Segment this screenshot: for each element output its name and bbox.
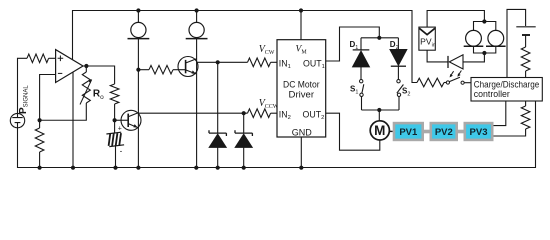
switch S2 [397, 80, 400, 83]
switch S3 (light activated) [446, 81, 449, 84]
svg-text:GND: GND [292, 127, 313, 137]
svg-text:+: + [118, 126, 122, 133]
wire: LED cathode back to PVin bottom [427, 50, 448, 62]
junction: bulb pair bottom [482, 51, 486, 55]
node VCCW: wire from Q1 collector to IN2 [138, 112, 247, 114]
junction: Z2 at ground rail [242, 166, 246, 170]
solar panel PV1 [393, 122, 424, 141]
controller U3 [471, 78, 542, 102]
op-amp supply / driver VM: junction on top rail [299, 8, 303, 12]
bulb LP2 [488, 30, 504, 46]
resistor R4 (IN1 series) [248, 58, 271, 67]
wire: VM pin [300, 11, 302, 40]
junction: lamp L2 tap on top rail [195, 8, 199, 12]
junction: Q1 emitter at ground rail [136, 166, 140, 170]
svg-text:M: M [374, 123, 385, 138]
resistor R3 (Q2 base) [138, 69, 149, 71]
wire: VCW branch down to zener Z1 [217, 62, 219, 133]
bulb pair bottom bracket [474, 46, 496, 53]
resistor R6 (controller input) [417, 78, 444, 87]
junction: Q2 emitter at ground rail [194, 166, 198, 170]
IC U2 DC Motor Driver [277, 40, 326, 137]
wire: controller top to battery B2 [507, 9, 526, 77]
svg-text:PV2: PV2 [435, 127, 453, 138]
junction: OUT1 at diode bus [377, 36, 381, 40]
resistor R1 (feedback divider to ground) [39, 120, 41, 128]
svg-text:DC Motor: DC Motor [283, 79, 320, 89]
wire: PV3 lower terminal to Rc2 [494, 129, 526, 136]
mech link PV1-PV2 [424, 130, 430, 134]
resistor R2 (output to Q1 base) [110, 84, 119, 104]
svg-text:-: - [120, 147, 123, 156]
lamp L1 [137, 11, 139, 23]
op-amp U1 [56, 50, 83, 83]
wire: top supply rail from op-amp V+ to PVin branch [73, 11, 418, 83]
lamp L2 [196, 11, 198, 23]
wire: L2 through Q2 to ground rail [196, 39, 198, 168]
wire: diode top bus [361, 37, 398, 39]
bulb pair top bracket [474, 22, 496, 31]
junction: feedback node at - input leg [38, 118, 42, 122]
junction: R1 at ground rail [38, 166, 42, 170]
solar cell PVin [419, 27, 435, 50]
junction: op-amp V- at ground rail [71, 166, 75, 170]
potentiometer Ro [85, 66, 87, 72]
wire: bulb bottom to LED anode [463, 53, 484, 62]
battery B1 (bias cell) [114, 120, 116, 133]
wire: op-amp output [83, 66, 115, 84]
switch S1 [360, 80, 363, 83]
resistor R5 (IN2 series) [248, 109, 271, 118]
transistor Q2 [178, 57, 198, 77]
battery B2 [516, 26, 535, 28]
wire: op-amp - input / feedback node [40, 75, 87, 121]
svg-text:PV1: PV1 [399, 127, 418, 138]
mech link PV2-PV3 [458, 130, 464, 134]
zener Z2 [243, 113, 245, 133]
transistor Q1 [121, 110, 141, 130]
wire: op-amp V- pin to ground rail [72, 72, 74, 168]
junction: op-amp output node [84, 64, 88, 68]
diode D1 [360, 38, 362, 50]
junction: B1 at ground rail [113, 166, 117, 170]
junction: bulb pair top [482, 19, 486, 23]
wire: source top to input resistor [18, 58, 28, 113]
mech link motor to PV1 [389, 130, 392, 132]
wire: PV3 upper terminal to controller [494, 101, 506, 126]
wire: switch bottom bus to motor [362, 109, 400, 111]
wire: resistor to op-amp + input [49, 57, 56, 59]
diode D2 [397, 38, 399, 50]
wire: OUT1 loop over to diode pair [326, 27, 380, 61]
source P_SIGNAL [10, 113, 24, 127]
wire: GND pin to ground rail [300, 137, 302, 168]
junction: VCW zener branch [216, 60, 220, 64]
svg-text:Driver: Driver [289, 89, 315, 99]
light arrows from LED to switch [451, 71, 454, 76]
wire: L1 down through Q2 base tap to Q1 collector [137, 39, 139, 168]
zener Z1 [209, 130, 226, 136]
junction: Q1 base node [113, 118, 117, 122]
node VCW: wire from Q2 collector to IN1 [197, 61, 248, 63]
junction: VCCW at zener Z2 [242, 111, 246, 115]
wire: PVin top over to bulb pair [427, 11, 484, 28]
junction: GND at ground rail [299, 166, 303, 170]
junction: Z1 at ground rail [216, 166, 220, 170]
resistor Rin (op-amp + input) [27, 54, 49, 63]
resistor R7 (battery series) [521, 47, 530, 71]
solar panel PV3 [464, 122, 494, 141]
wire: OUT2 to motor bottom [326, 113, 380, 150]
resistor R8 (controller to PV3) [521, 106, 530, 129]
bulb LP1 [466, 30, 482, 46]
wire: bottom ground rail, from source bottom to controller right side [18, 101, 536, 168]
solar panel PV2 [430, 122, 459, 141]
svg-text:PV3: PV3 [470, 127, 488, 138]
motor M1 [370, 121, 389, 140]
junction: lamp L1 tap on top rail [136, 8, 140, 12]
LED D3 [449, 55, 463, 69]
junction: Q2 base branch [136, 68, 140, 72]
svg-text:controller: controller [474, 89, 510, 99]
